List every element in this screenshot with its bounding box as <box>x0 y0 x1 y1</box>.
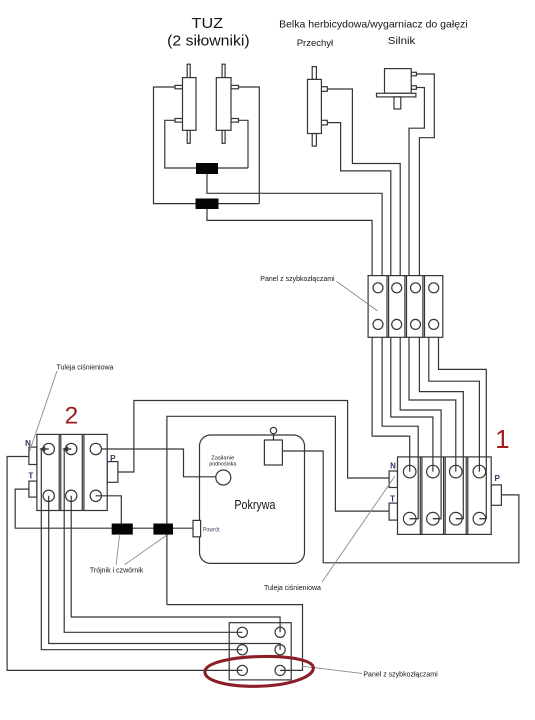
bottom panel circle bottom-right <box>275 665 285 675</box>
panel P1 divider 3 <box>422 276 424 338</box>
cylinder TUZ-1 bottom rod <box>187 130 190 143</box>
pointer czwornik label to czwornik <box>125 535 167 564</box>
wire panel P1 s4R to block1 bottom circle 4 <box>439 337 487 518</box>
wire silnik bottom port to panel P1 section3 left <box>409 88 424 276</box>
wire block2 bottom circle1 to bottom panel mid-right circle <box>49 496 280 650</box>
svg-text:Belka herbicydowa/wygarniacz d: Belka herbicydowa/wygarniacz do gałęzi <box>279 19 468 31</box>
pokrywa cover body <box>200 435 305 563</box>
valve block1 divider 2 <box>443 457 445 535</box>
pointer panel z szybkozlaczami 2 from red ellipse <box>302 666 362 673</box>
wire block2 P port to block1 N port <box>118 401 389 479</box>
svg-text:2: 2 <box>65 403 79 430</box>
wire TUZ inner loop left (cyl1 bottom port to junction J1) <box>165 120 248 168</box>
panel P1 body <box>368 276 443 338</box>
panel P1 circle s3 bottom <box>411 319 421 329</box>
wire block2 bottom circle3 to trojnik <box>96 496 122 524</box>
wire block2 bottom circle2 to bottom panel top-right circle <box>71 496 280 633</box>
panel P1 divider 2 <box>404 276 406 338</box>
wire pokrywa vent circle stem <box>273 434 275 441</box>
svg-text:(2 siłowniki): (2 siłowniki) <box>167 32 250 49</box>
red highlight ellipse around bottom panel row <box>205 656 313 686</box>
wire silnik top port to panel P1 section3 right <box>416 74 434 276</box>
wire panel P1 s3R to block1 bottom circle 3 <box>419 337 463 518</box>
bottom panel circle mid-right <box>275 645 285 655</box>
wire block2 T port to powrot (return) line <box>15 489 193 528</box>
junction trojnik (tee) black fitting <box>112 524 133 535</box>
valve block1 bottom circle 3 <box>450 512 463 525</box>
svg-text:P: P <box>110 454 116 463</box>
wire przechyl top port to panel P1 section2 right <box>327 89 400 276</box>
cylinder TUZ-2 body <box>216 78 231 131</box>
wire stub block2 top circle1 arrow line <box>41 448 48 450</box>
wire czwornik up to block1 T port <box>167 416 389 604</box>
svg-text:Panel z szybkozłączami: Panel z szybkozłączami <box>363 671 438 678</box>
wire stubs over circles <box>41 449 486 519</box>
bottom panel body <box>229 623 291 680</box>
wire panel P1 s1L to block1 top circle 1 <box>372 337 410 471</box>
wire junction J2 to panel P1 section1 left <box>207 209 372 276</box>
svg-text:N: N <box>390 462 396 471</box>
valve block2 body <box>37 434 107 510</box>
wire stub block1 bottom circle4 <box>479 518 486 520</box>
valve block2 top circle 1 <box>43 443 54 454</box>
bottom panel circle mid-left <box>237 645 247 655</box>
wire block2 top circle2 to bottom panel top-left circle <box>64 449 242 632</box>
cylinder TUZ-1 top port <box>175 85 183 88</box>
pointer tuleja cisnieniowa 2 to block1 N port <box>322 476 395 582</box>
panel P1 circle s1 top <box>373 283 383 293</box>
svg-text:Trójnik i czwórnik: Trójnik i czwórnik <box>90 568 144 575</box>
wire stub block2 top circle2 arrow line <box>64 448 71 450</box>
valve block2 bottom circle 3 <box>90 490 101 501</box>
wire panel P1 s2R to block1 bottom circle 2 <box>400 337 441 518</box>
svg-text:Przechył: Przechył <box>297 38 334 49</box>
wire TUZ outer loop left (cyl1 top port to junction J2) <box>154 87 260 204</box>
svg-text:podnośnika: podnośnika <box>209 461 237 467</box>
valve block1 bottom circle 2 <box>427 512 440 525</box>
panel P1 circle s2 top <box>392 283 402 293</box>
wire panel P1 s1R to block1 bottom circle 1 <box>382 337 418 518</box>
wire TUZ inner loop right (cyl2 bottom port down) <box>239 120 249 168</box>
cylinder TUZ-1 body <box>183 78 197 131</box>
cylinder przechyl top port <box>321 87 327 92</box>
valve block2 top circle 3 <box>90 443 101 454</box>
junction TUZ black fitting J2 <box>196 199 219 210</box>
valve block1 top circle 4 <box>473 465 486 478</box>
wire panel P1 s3L to block1 top circle 3 <box>409 337 456 471</box>
valve block1 top circle 1 <box>403 465 416 478</box>
wire block2 top circle1 to bottom panel mid-left circle <box>41 449 242 650</box>
wire TUZ outer loop right (cyl2 top port down) <box>239 87 260 204</box>
svg-text:Pokrywa: Pokrywa <box>234 498 275 512</box>
valve block2 P port <box>107 462 118 483</box>
arrowhead block2 top circle2 <box>62 446 68 451</box>
wire stub block1 bottom circle1 <box>410 518 419 520</box>
svg-text:Powrót: Powrót <box>203 526 220 533</box>
bottom panel circle bottom-left <box>237 665 247 675</box>
valve block1 bottom circle 4 <box>473 512 486 525</box>
junction TUZ black fitting J1 <box>196 163 218 174</box>
svg-text:Panel z szybkozłączami: Panel z szybkozłączami <box>260 276 335 283</box>
pokrywa powrot port <box>193 520 201 536</box>
cylinder TUZ-2 bottom port <box>231 119 239 123</box>
motor silnik base plate <box>377 93 416 97</box>
svg-text:T: T <box>28 472 33 481</box>
bottom panel circle top-left <box>237 627 247 637</box>
cylinder przechyl bottom rod <box>312 134 316 147</box>
panel P1 circle s3 top <box>411 283 421 293</box>
cylinder TUZ-2 bottom rod <box>222 130 225 143</box>
panel P1 circle s1 bottom <box>373 319 383 329</box>
svg-text:Silnik: Silnik <box>388 36 417 47</box>
arrowhead block2 top circle1 <box>39 446 45 451</box>
panel P1 circle s4 top <box>429 283 439 293</box>
pointer tuleja cisnieniowa 1 to block2 N port <box>30 371 58 452</box>
wire block2 N port to bottom panel bottom-left circle <box>7 457 242 671</box>
valve block1 T port <box>389 503 397 520</box>
motor silnik shaft <box>394 97 401 109</box>
wire block2 top circle3 to zasilanie circle <box>102 449 216 477</box>
pokrywa vent circle <box>270 427 276 433</box>
cylinder przechyl bottom port <box>321 120 327 125</box>
valve block2 T port <box>29 481 37 497</box>
cylinder TUZ-1 bottom port <box>175 119 183 123</box>
svg-text:TUZ: TUZ <box>192 15 224 32</box>
wire block1 P port to pokrywa top port <box>282 451 519 563</box>
cylinder TUZ-1 top rod <box>187 64 190 77</box>
svg-text:Tuleja ciśnieniowa: Tuleja ciśnieniowa <box>264 585 321 592</box>
cylinder przechyl body <box>308 79 322 133</box>
pointer panel z szybkozlaczami 1 to panel P1 <box>336 281 377 311</box>
wire czwornik down to bottom panel bottom-right circle <box>167 605 303 671</box>
valve block1 body <box>398 457 492 535</box>
wire panel P1 s2L to block1 top circle 2 <box>391 337 433 471</box>
valve block2 top circle 2 <box>66 443 77 454</box>
valve block2 N port <box>29 447 37 464</box>
pointer trojnik label to trojnik <box>116 535 120 564</box>
wire przechyl bottom port to panel P1 section2 left <box>327 123 391 276</box>
valve block1 top circle 3 <box>450 465 463 478</box>
wire junction J1 to panel P1 section1 right <box>207 174 382 276</box>
valve block2 divider 1 <box>58 434 60 510</box>
cylinder TUZ-2 top port <box>231 85 239 88</box>
wire stub block1 bottom circle3 <box>456 518 464 520</box>
valve block2 divider 2 <box>81 434 83 510</box>
motor silnik top port <box>411 72 416 76</box>
cylinder TUZ-2 top rod <box>222 64 225 77</box>
valve block1 divider 3 <box>465 457 467 535</box>
panel P1 circle s4 bottom <box>429 319 439 329</box>
pokrywa zasilanie circle <box>216 470 231 485</box>
valve block1 bottom circle 1 <box>403 512 416 525</box>
valve block1 divider 1 <box>419 457 421 535</box>
svg-text:1: 1 <box>495 424 509 454</box>
motor silnik body <box>385 69 412 94</box>
svg-text:P: P <box>495 474 501 483</box>
wire stub block1 bottom circle2 <box>433 518 441 520</box>
valve block2 bottom circle 1 <box>43 490 54 501</box>
valve block2 bottom circle 2 <box>66 490 77 501</box>
motor silnik bottom port <box>411 86 416 90</box>
panel P1 divider 1 <box>386 276 388 338</box>
valve block1 top circle 2 <box>427 465 440 478</box>
panel P1 circle s2 bottom <box>392 319 402 329</box>
junction czwornik (cross) black fitting <box>153 524 173 535</box>
cylinder przechyl top rod <box>312 67 316 80</box>
wire panel P1 s4L to block1 top circle 4 <box>429 337 480 471</box>
svg-text:Tuleja ciśnieniowa: Tuleja ciśnieniowa <box>57 364 114 371</box>
pokrywa top port square <box>264 440 282 465</box>
bottom panel circle top-right <box>275 627 285 637</box>
svg-text:T: T <box>390 495 395 504</box>
block circles drawn over wires <box>43 443 486 525</box>
valve block1 N port <box>389 471 397 488</box>
svg-text:N: N <box>25 439 31 448</box>
valve block1 P port <box>491 485 501 505</box>
